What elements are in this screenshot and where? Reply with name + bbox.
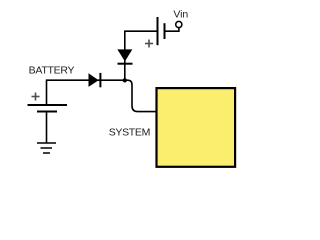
svg-text:SYSTEM: SYSTEM — [109, 127, 150, 139]
svg-text:BATTERY: BATTERY — [29, 65, 75, 77]
svg-text:Vin: Vin — [173, 9, 188, 21]
